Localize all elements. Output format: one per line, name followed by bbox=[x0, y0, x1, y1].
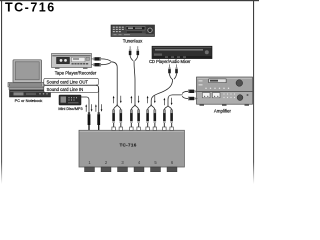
svg-text:CD Player/Audio Mixer: CD Player/Audio Mixer bbox=[149, 59, 191, 64]
svg-text:Mini Disc/MP3: Mini Disc/MP3 bbox=[58, 107, 82, 111]
svg-text:Sound card Line OUT: Sound card Line OUT bbox=[47, 79, 89, 84]
svg-text:Tuner/aux: Tuner/aux bbox=[123, 39, 143, 44]
svg-text:Amplifier: Amplifier bbox=[214, 108, 232, 113]
svg-text:TC-716: TC-716 bbox=[5, 1, 56, 15]
svg-text:TC-716: TC-716 bbox=[119, 143, 136, 148]
svg-text:PC or Notebook: PC or Notebook bbox=[15, 98, 43, 103]
svg-text:Sound card Line IN: Sound card Line IN bbox=[47, 87, 84, 92]
svg-text:Tape Player/Recorder: Tape Player/Recorder bbox=[55, 70, 97, 75]
